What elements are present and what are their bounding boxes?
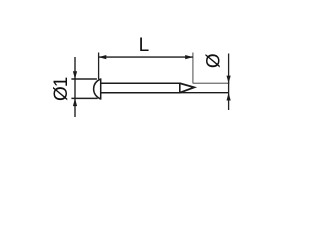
dimension D1 arrow bottom xyxy=(73,98,77,106)
nail shaft top line xyxy=(101,82,180,84)
dimension L arrow right xyxy=(185,55,193,59)
svg-text:Ø1: Ø1 xyxy=(51,77,72,101)
dimension D arrow bottom xyxy=(227,93,231,101)
dimension D extension line top (gray) xyxy=(193,82,230,84)
dimension L line xyxy=(99,56,193,58)
nail head U-dome xyxy=(94,79,101,99)
dimension L arrow left xyxy=(99,55,107,59)
dimension L extension line right (gray) xyxy=(192,53,194,84)
dimension D line xyxy=(228,54,230,111)
nail tip base line xyxy=(179,83,181,94)
nail tip point xyxy=(180,83,194,92)
dimension D1 extension line top xyxy=(71,78,97,80)
dimension D extension line bottom xyxy=(180,92,229,94)
dimension D1 extension line bottom xyxy=(71,97,97,99)
nail shaft bottom line xyxy=(101,92,180,94)
dimension L extension line left xyxy=(98,53,100,80)
dimension D arrow top xyxy=(227,76,231,84)
dimension D1 line xyxy=(74,57,76,117)
svg-text:Ø: Ø xyxy=(203,53,224,68)
svg-text:L: L xyxy=(139,35,150,56)
dimension D1 arrow top xyxy=(73,71,77,79)
